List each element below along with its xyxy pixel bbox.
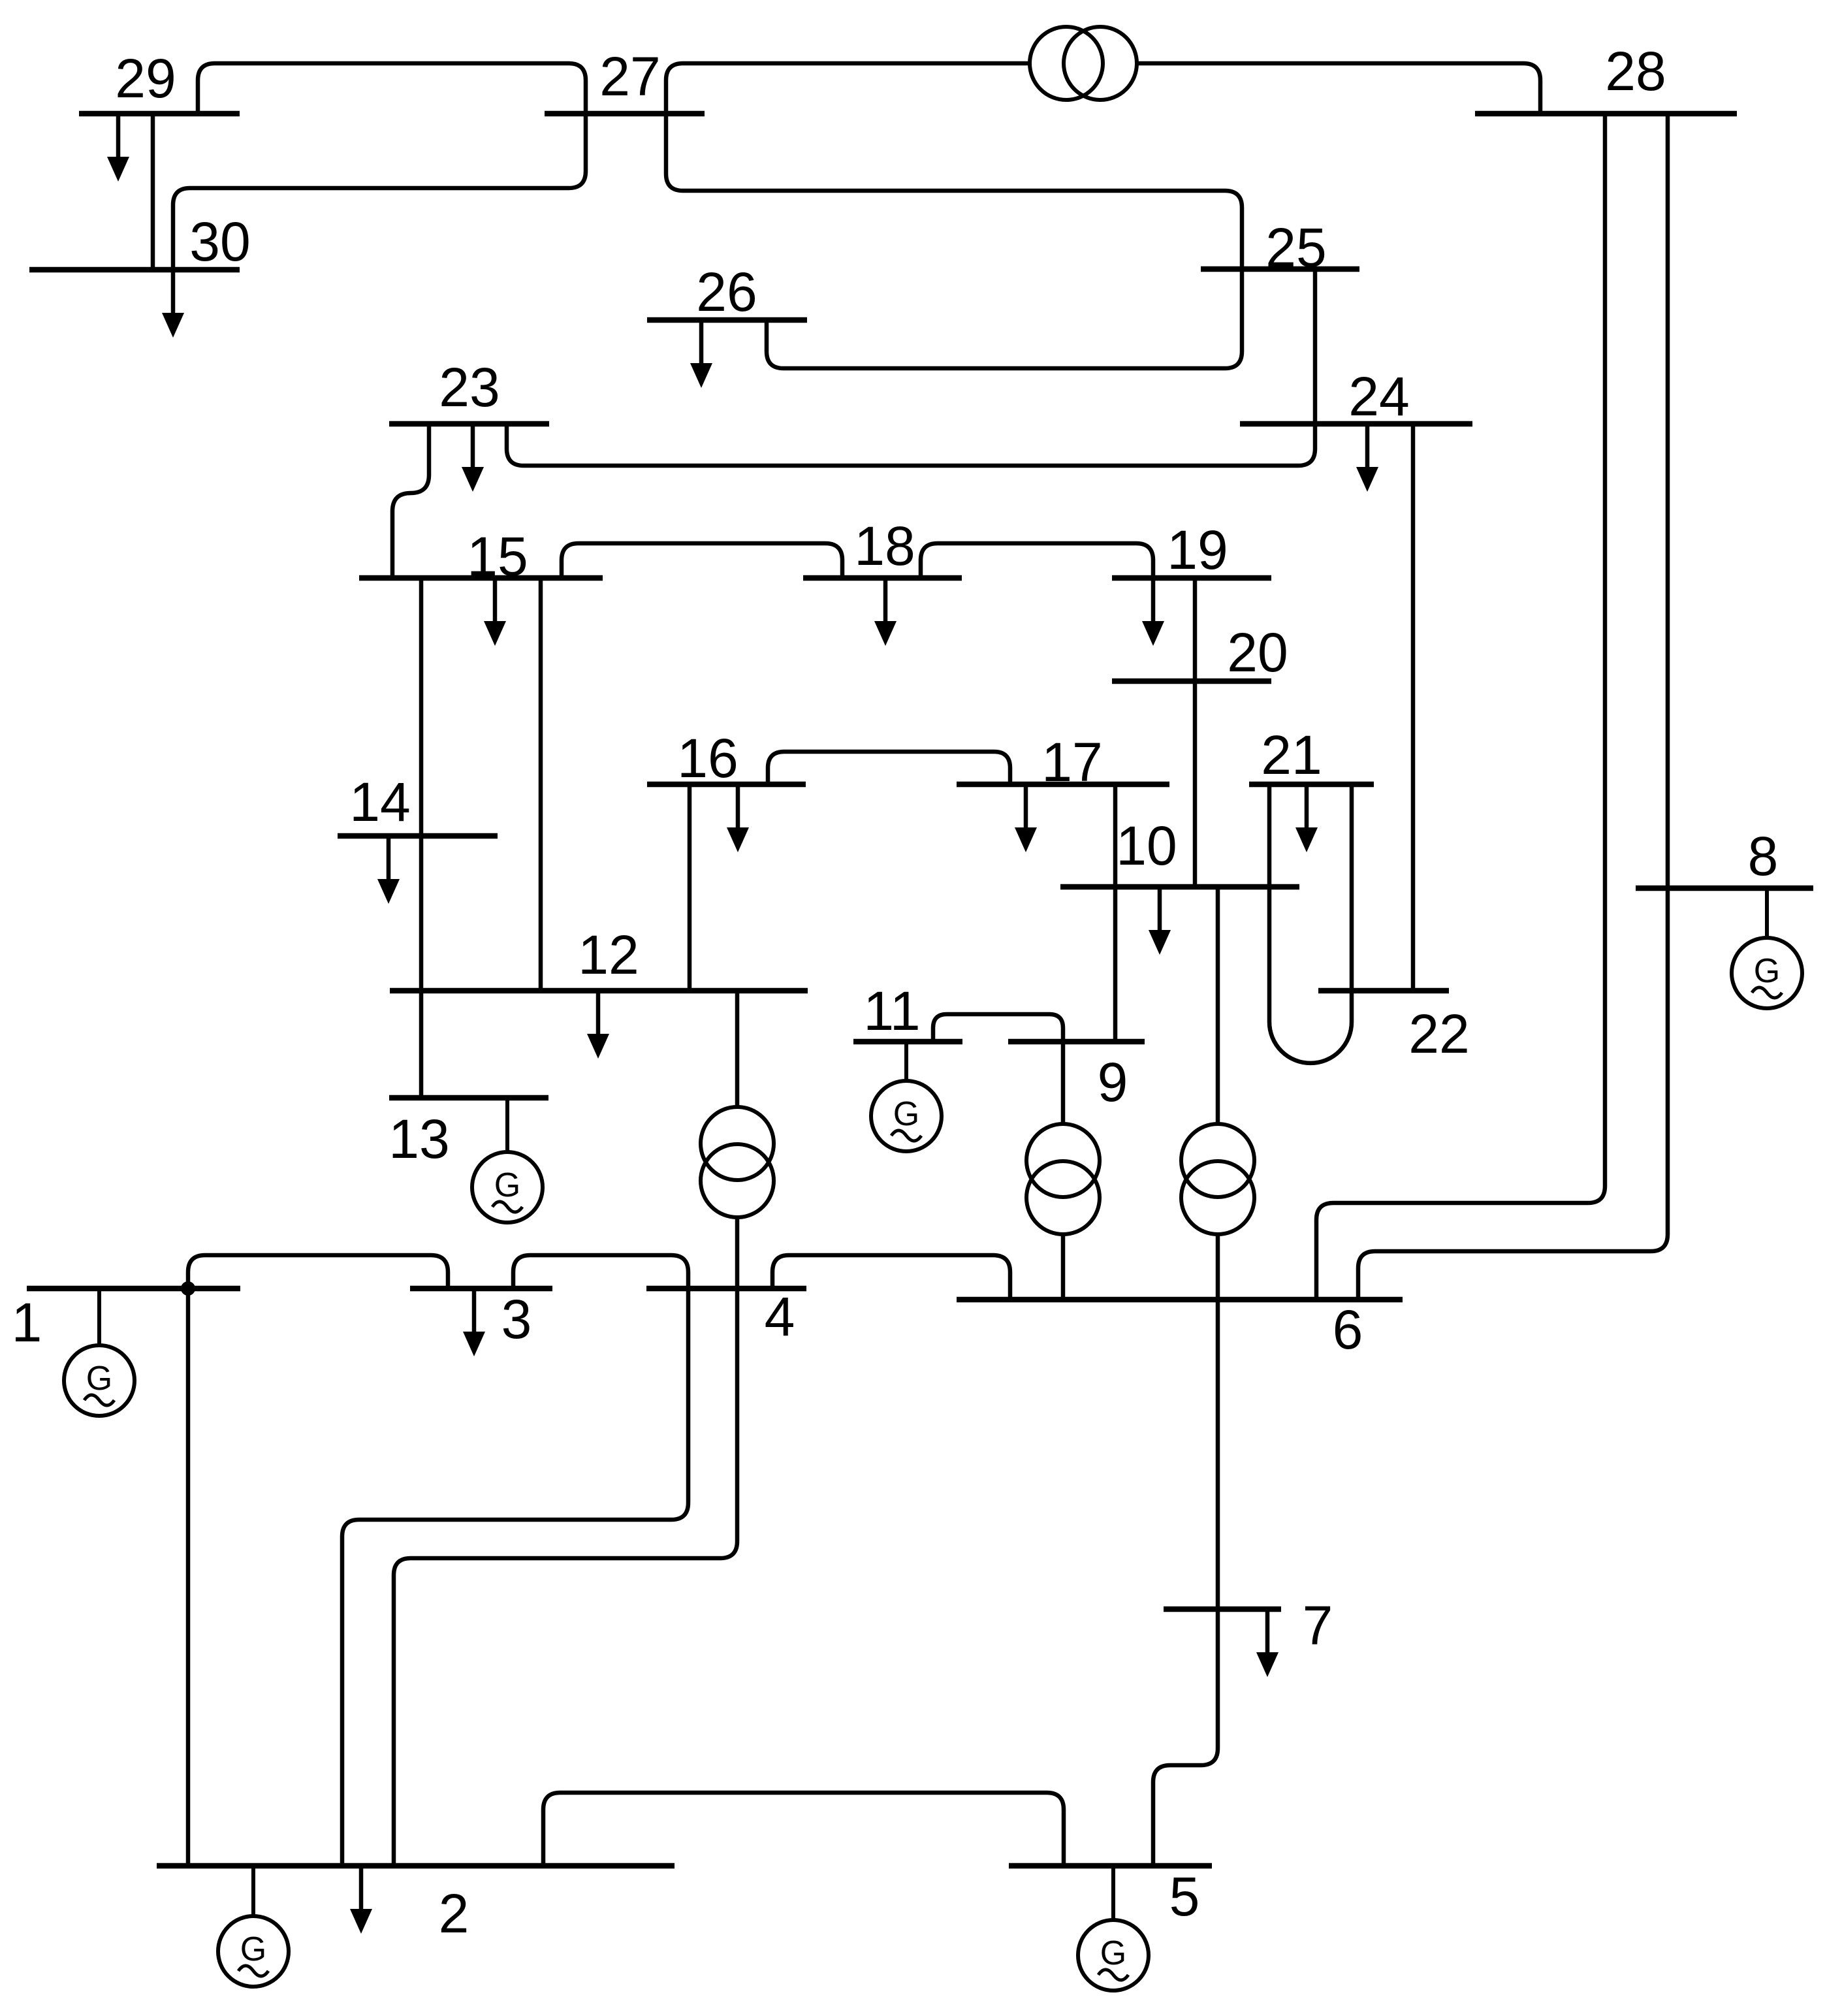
svg-text:G: G <box>893 1095 919 1133</box>
svg-text:G: G <box>86 1360 112 1398</box>
svg-text:28: 28 <box>1605 40 1666 102</box>
svg-text:2: 2 <box>439 1883 469 1944</box>
svg-text:17: 17 <box>1041 731 1102 793</box>
svg-text:11: 11 <box>863 980 920 1042</box>
svg-text:24: 24 <box>1348 366 1409 427</box>
svg-text:G: G <box>494 1166 520 1204</box>
svg-text:15: 15 <box>467 526 528 587</box>
svg-text:3: 3 <box>501 1288 532 1350</box>
svg-text:G: G <box>1100 1934 1126 1972</box>
svg-text:13: 13 <box>389 1108 449 1170</box>
svg-text:4: 4 <box>765 1286 795 1347</box>
svg-text:G: G <box>240 1930 266 1968</box>
svg-text:8: 8 <box>1748 825 1779 887</box>
svg-text:6: 6 <box>1333 1299 1363 1360</box>
svg-text:14: 14 <box>349 771 410 833</box>
svg-text:12: 12 <box>578 924 639 985</box>
svg-text:30: 30 <box>189 211 250 272</box>
svg-text:18: 18 <box>854 515 915 577</box>
svg-text:25: 25 <box>1265 217 1326 278</box>
svg-text:G: G <box>1754 952 1780 990</box>
svg-text:20: 20 <box>1227 622 1288 683</box>
svg-text:9: 9 <box>1098 1051 1128 1113</box>
svg-text:19: 19 <box>1167 519 1228 581</box>
svg-text:22: 22 <box>1408 1003 1469 1064</box>
svg-text:27: 27 <box>599 46 660 107</box>
svg-text:26: 26 <box>696 261 757 323</box>
svg-text:21: 21 <box>1261 724 1322 786</box>
svg-text:23: 23 <box>439 357 500 418</box>
svg-text:10: 10 <box>1116 815 1177 876</box>
svg-text:5: 5 <box>1169 1866 1200 1927</box>
svg-text:1: 1 <box>12 1292 42 1353</box>
svg-text:7: 7 <box>1303 1595 1333 1656</box>
svg-text:29: 29 <box>115 48 176 109</box>
svg-text:16: 16 <box>677 728 738 789</box>
